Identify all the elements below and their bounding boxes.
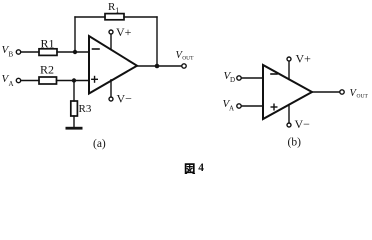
wire U1 V+ — [110, 34, 112, 49]
U2 inverting input sign — [271, 73, 277, 75]
U1 inverting input sign — [93, 48, 100, 50]
svg-text:R2: R2 — [40, 63, 54, 77]
wire U1 output — [137, 65, 182, 67]
svg-text:V+: V+ — [116, 25, 132, 39]
wire VA to R2 — [21, 80, 39, 82]
U2 noninverting input sign — [271, 104, 277, 110]
node junction feedback/R1 — [73, 50, 77, 54]
node VB input terminal — [16, 50, 20, 54]
svg-text:(b): (b) — [288, 136, 302, 148]
wire U2 V+ — [288, 61, 290, 79]
wire VB to R1 — [21, 51, 39, 53]
node V+ terminal (b) — [287, 57, 291, 61]
svg-text:D: D — [230, 76, 235, 84]
resistor R2 — [39, 77, 57, 84]
svg-text:R3: R3 — [79, 103, 92, 115]
svg-text:OUT: OUT — [182, 56, 194, 62]
wire R3 to ground — [73, 116, 75, 127]
feedback resistor Rf — [105, 14, 124, 20]
node V- terminal (a) — [109, 97, 113, 101]
wire U2 output — [312, 91, 340, 93]
resistor R1 — [39, 49, 57, 56]
label VA (b) — [223, 98, 235, 113]
wire R2 to noninverting input — [57, 80, 90, 82]
op-amp U1 — [89, 36, 137, 94]
node output junction (a) — [155, 64, 160, 69]
svg-text:OUT: OUT — [357, 94, 369, 100]
wire VD to U2 — [241, 77, 263, 79]
node junction R3 tap — [72, 78, 76, 82]
node VA input terminal (a) — [16, 78, 20, 82]
svg-text:B: B — [9, 51, 14, 59]
label Rf — [108, 1, 119, 15]
ground — [66, 127, 83, 130]
node VA input terminal (b) — [237, 104, 241, 108]
node Vout terminal (b) — [340, 90, 344, 94]
resistor R3 — [71, 101, 78, 116]
svg-text:V−: V− — [117, 92, 133, 106]
wire feedback left vertical — [74, 17, 76, 52]
wire VA to U2 — [241, 105, 263, 107]
node Vout terminal (a) — [182, 64, 186, 68]
svg-text:A: A — [229, 105, 234, 113]
svg-text:V−: V− — [295, 117, 311, 131]
svg-text:A: A — [9, 80, 14, 88]
label VB — [2, 44, 14, 59]
label Vout (b) — [350, 88, 369, 100]
caption figure 4 glyph tu — [185, 164, 194, 173]
wire U2 V- — [288, 105, 290, 123]
wire U1 V- — [110, 80, 112, 97]
label Vout (a) — [176, 50, 195, 62]
node V- terminal (b) — [287, 123, 291, 127]
svg-text:R1: R1 — [41, 37, 55, 51]
svg-text:V+: V+ — [296, 52, 312, 66]
op-amp U2 — [263, 65, 312, 119]
wire feedback top right — [124, 16, 157, 18]
label VD — [224, 70, 236, 84]
wire feedback right vertical — [156, 17, 158, 66]
wire feedback top left — [75, 16, 105, 18]
svg-text:4: 4 — [198, 162, 204, 174]
wire R1 to inverting input — [57, 51, 89, 53]
node V+ terminal (a) — [109, 30, 113, 34]
U1 noninverting input sign — [92, 77, 98, 83]
svg-text:(a): (a) — [93, 138, 106, 150]
label VA (a) — [2, 73, 14, 88]
wire junction to R3 — [73, 81, 75, 102]
node VD input terminal — [237, 76, 241, 80]
svg-text:1: 1 — [115, 6, 119, 15]
